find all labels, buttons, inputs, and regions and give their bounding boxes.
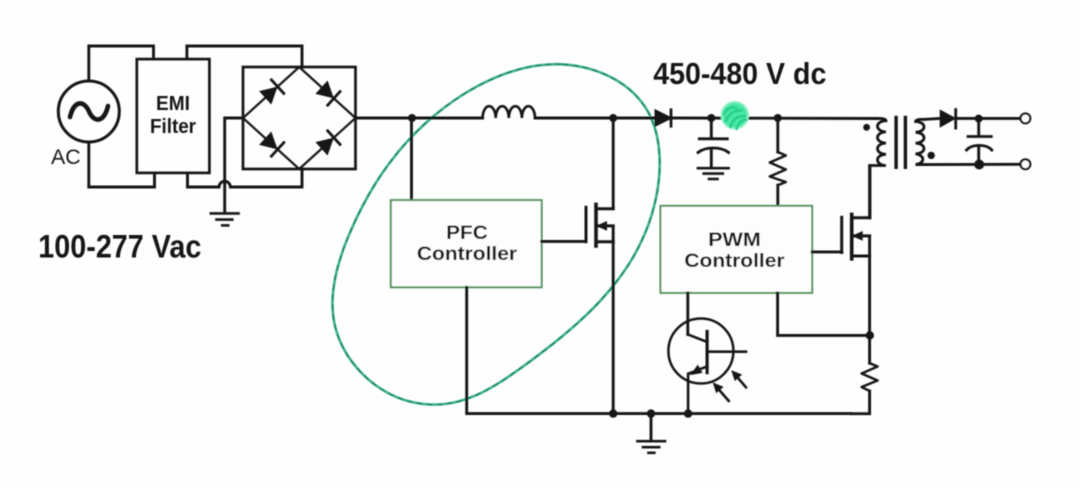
svg-text:PWM: PWM [708, 229, 761, 251]
AC source V1 [58, 81, 119, 142]
output terminal - [1021, 159, 1031, 169]
bottom bus [467, 287, 851, 413]
wire AC top [89, 46, 154, 81]
output diode D2 [941, 110, 956, 129]
opto light arrow 1 [713, 382, 729, 401]
PWM controller U2 [660, 206, 812, 293]
wire Q2 drain to transformer primary [868, 166, 871, 218]
secondary top rail [924, 118, 941, 119]
bulk capacitor C1 [698, 118, 729, 167]
top rail: bridge output to transformer [356, 117, 483, 120]
label EMI Filter [150, 92, 196, 138]
annotation ellipse (PFC highlight) [332, 64, 659, 404]
wire Q1 source to bottom bus [612, 226, 615, 414]
ground G1 [211, 213, 239, 225]
wire EMI top to bridge [187, 46, 302, 67]
PFC controller U1 [391, 200, 542, 287]
svg-text:450-480 V dc: 450-480 V dc [653, 56, 826, 91]
svg-text:PFC: PFC [446, 222, 488, 244]
bridge diamond [243, 67, 356, 169]
MOSFET Q2 [842, 214, 870, 258]
resistor R2 (sense) [851, 363, 878, 414]
svg-text:Controller: Controller [417, 243, 518, 265]
wire PWM to opto collector [686, 293, 689, 335]
output capacitor C2 [967, 119, 992, 165]
node F [609, 409, 617, 417]
highlighted node marker (450-480V node) [721, 102, 749, 132]
Q1 body arrow [596, 221, 607, 231]
bridge rectifier BR1 box [243, 67, 356, 169]
output terminal + [1021, 114, 1031, 124]
ground G3 [637, 441, 665, 453]
wire ground stub [650, 414, 653, 440]
T1 secondary phase dot [928, 152, 935, 159]
node I [975, 115, 983, 123]
EMI filter block [137, 59, 210, 173]
wire EMI bottom to bridge (hop over ground wire) [188, 169, 303, 187]
T1 secondary [916, 119, 925, 164]
node C (bulk cap) [707, 114, 715, 122]
bridge diode bottom-right [317, 131, 340, 154]
node A (PFC input) [408, 114, 416, 122]
MOSFET Q1 [586, 204, 613, 246]
wire Q2 source down [868, 236, 871, 363]
ground G2 [698, 168, 729, 179]
wire node A to PFC controller [410, 118, 413, 200]
wire AC bottom [89, 142, 155, 187]
node B (boost switch) [609, 114, 617, 122]
node E (source sense) [866, 331, 874, 339]
node D (PWM supply) [774, 114, 782, 122]
T1 primary phase dot [863, 124, 870, 131]
wire PWM aux to source node [778, 293, 871, 336]
node H [684, 409, 692, 417]
svg-text:AC: AC [51, 146, 81, 169]
wire PFC gate drive [542, 240, 586, 243]
node J [974, 160, 984, 170]
resistor R1 [770, 118, 786, 206]
bridge diode bottom-left [261, 133, 284, 156]
bridge diode top-left [261, 80, 284, 103]
optocoupler U3 [668, 319, 746, 414]
boost diode D1 [656, 110, 672, 126]
opto emitter arrow [690, 365, 702, 376]
wire PWM gate drive [812, 250, 842, 253]
svg-text:EMI: EMI [156, 92, 190, 115]
svg-text:100-277 Vac: 100-277 Vac [38, 229, 201, 265]
transformer T1 primary [870, 119, 886, 218]
wire bridge negative to ground [225, 118, 243, 212]
svg-text:Filter: Filter [150, 115, 196, 138]
T1 core [894, 118, 897, 168]
node G [647, 409, 655, 417]
wire node B to MOSFET Q1 drain [612, 118, 615, 209]
secondary bottom rail [924, 163, 1021, 166]
bridge diode top-right [317, 82, 340, 105]
inductor L1 [483, 106, 535, 118]
svg-text:Controller: Controller [684, 250, 785, 272]
Q2 body arrow [852, 231, 863, 241]
opto light arrow 2 [731, 370, 746, 387]
